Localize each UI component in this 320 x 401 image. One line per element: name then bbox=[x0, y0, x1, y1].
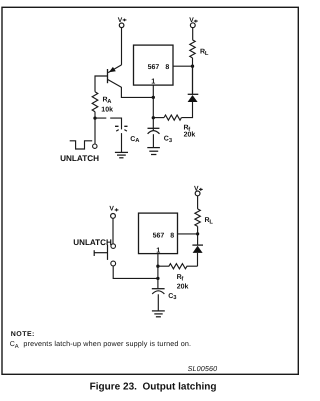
svg-text:V: V bbox=[109, 206, 114, 213]
transistor Q1 (PNP) bbox=[108, 65, 122, 87]
svg-text:20k: 20k bbox=[184, 131, 196, 139]
svg-text:A: A bbox=[15, 344, 19, 350]
wire switch to pin1 line bbox=[113, 266, 158, 278]
resistor RL (bottom) bbox=[197, 226, 199, 234]
svg-text:UNLATCH: UNLATCH bbox=[73, 238, 112, 247]
IC U1 567 (top) bbox=[134, 45, 174, 85]
svg-text:1: 1 bbox=[151, 77, 155, 86]
diode D2 (bottom) bbox=[192, 234, 203, 253]
svg-text:UNLATCH: UNLATCH bbox=[60, 154, 99, 163]
svg-text:A: A bbox=[135, 138, 140, 144]
power V+ (top-right) bbox=[189, 17, 198, 24]
svg-text:NOTE:: NOTE: bbox=[11, 331, 35, 338]
resistor RL (top) bbox=[190, 40, 195, 58]
wire pin 8 bbox=[173, 65, 193, 67]
wire diode to Rf bbox=[181, 102, 192, 118]
wire RL to node bbox=[192, 58, 194, 94]
power V+ (top-left) bbox=[118, 17, 127, 24]
wire Rf to pin1 node bbox=[153, 117, 164, 119]
svg-text:L: L bbox=[205, 51, 209, 57]
wire V+ to RL bbox=[192, 28, 194, 40]
wire base lead bbox=[95, 76, 108, 92]
ground (C3 bottom) bbox=[152, 311, 165, 317]
svg-text:A: A bbox=[107, 99, 112, 105]
wire V+ to switch bbox=[112, 218, 114, 243]
wire RA to unlatch terminal bbox=[94, 112, 96, 144]
svg-text:1: 1 bbox=[156, 245, 160, 254]
resistor Rf 20k (bottom) bbox=[158, 264, 198, 269]
svg-text:10k: 10k bbox=[101, 106, 113, 114]
svg-text:567: 567 bbox=[153, 233, 165, 240]
wire pin 8 (bottom) bbox=[178, 233, 198, 235]
note text bbox=[10, 331, 191, 350]
svg-text:L: L bbox=[209, 219, 213, 225]
wire Rf to diode bbox=[197, 253, 199, 266]
wire pin 1 bbox=[152, 85, 154, 131]
wire pin 1 (bottom) bbox=[157, 254, 159, 289]
ground (C3 top) bbox=[147, 148, 160, 155]
terminal (open circle) bbox=[93, 144, 97, 148]
svg-text:20k: 20k bbox=[177, 282, 189, 290]
node pin8/RL/diode junction (bottom) bbox=[196, 232, 199, 235]
node pin1/C3/Rf junction bbox=[152, 116, 155, 119]
svg-text:3: 3 bbox=[173, 294, 177, 301]
pushbutton switch (UNLATCH) bbox=[94, 244, 115, 266]
power V+ (bottom circuit, right) bbox=[197, 196, 199, 209]
IC U2 567 (bottom) bbox=[139, 213, 178, 254]
svg-text:f: f bbox=[181, 275, 183, 282]
node RA/CA junction bbox=[93, 116, 96, 119]
resistor Rf 20k (top) bbox=[164, 115, 181, 120]
diode D1 (top) bbox=[188, 66, 199, 102]
svg-text:Figure 23. Output latching: Figure 23. Output latching bbox=[90, 382, 217, 393]
svg-text:567: 567 bbox=[148, 64, 160, 71]
svg-text:SL00560: SL00560 bbox=[188, 364, 218, 373]
ground (CA) bbox=[115, 152, 128, 157]
resistor RA 10k bbox=[92, 92, 98, 112]
capacitor CA (dashed) bbox=[115, 126, 140, 152]
capacitor C3 (top) bbox=[148, 128, 173, 147]
pulse waveform symbol bbox=[70, 141, 93, 149]
svg-text:prevents latch-up when power s: prevents latch-up when power supply is t… bbox=[23, 339, 191, 348]
svg-text:8: 8 bbox=[170, 233, 174, 240]
power V+ (bottom circuit, left) bbox=[109, 206, 118, 213]
capacitor C3 (bottom) bbox=[152, 289, 178, 311]
node pin1/Rf junction (bottom) bbox=[156, 265, 159, 268]
wire dashed to CA bbox=[95, 118, 122, 129]
node unlatch/pin1 junction bbox=[156, 277, 159, 280]
node collector/pin1 junction bbox=[152, 96, 155, 99]
svg-text:3: 3 bbox=[169, 137, 173, 144]
wire V+ to emitter bbox=[121, 28, 123, 65]
wire collector to pin1 node bbox=[121, 87, 153, 97]
node pin8/RL/diode junction bbox=[191, 65, 194, 68]
svg-text:8: 8 bbox=[165, 64, 169, 71]
